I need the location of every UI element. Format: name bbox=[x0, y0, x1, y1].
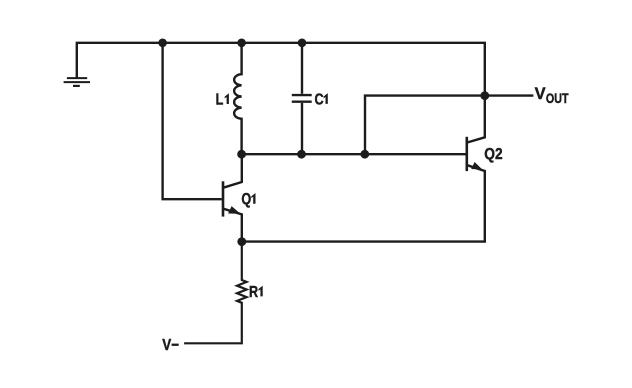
svg-text:Q: Q bbox=[241, 191, 251, 209]
svg-text:OUT: OUT bbox=[546, 90, 569, 106]
svg-text:Q2: Q2 bbox=[484, 146, 502, 163]
svg-text:C: C bbox=[315, 91, 324, 109]
svg-text:V: V bbox=[535, 84, 547, 103]
svg-text:V−: V− bbox=[162, 337, 179, 354]
svg-text:R: R bbox=[249, 284, 259, 302]
svg-text:L: L bbox=[216, 91, 224, 109]
